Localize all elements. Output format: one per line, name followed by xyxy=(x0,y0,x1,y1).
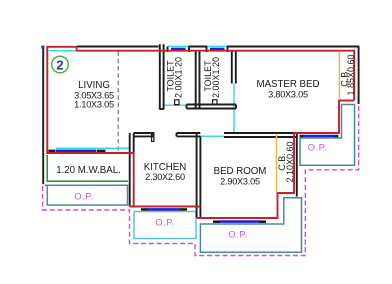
svg-text:BED ROOM: BED ROOM xyxy=(214,166,267,177)
svg-text:LIVING: LIVING xyxy=(78,80,110,91)
svg-text:2.10X0.60: 2.10X0.60 xyxy=(285,141,295,182)
svg-text:2: 2 xyxy=(56,57,63,72)
svg-text:1.85X0.60: 1.85X0.60 xyxy=(346,54,356,95)
svg-text:O.P.: O.P. xyxy=(155,217,174,228)
svg-text:2.00X1.20: 2.00X1.20 xyxy=(211,57,221,98)
svg-text:3.80X3.05: 3.80X3.05 xyxy=(268,90,308,100)
svg-text:MASTER BED: MASTER BED xyxy=(257,79,320,90)
svg-text:1.20 M.W.BAL.: 1.20 M.W.BAL. xyxy=(56,165,121,176)
svg-text:2.30X2.60: 2.30X2.60 xyxy=(145,172,185,182)
svg-text:O.P.: O.P. xyxy=(308,143,327,154)
svg-text:2.90X3.05: 2.90X3.05 xyxy=(220,177,260,187)
svg-text:O.P.: O.P. xyxy=(228,230,247,241)
svg-text:O.P.: O.P. xyxy=(74,192,93,203)
svg-text:1.10X3.05: 1.10X3.05 xyxy=(74,99,114,109)
svg-text:2.00X1.20: 2.00X1.20 xyxy=(174,57,184,98)
